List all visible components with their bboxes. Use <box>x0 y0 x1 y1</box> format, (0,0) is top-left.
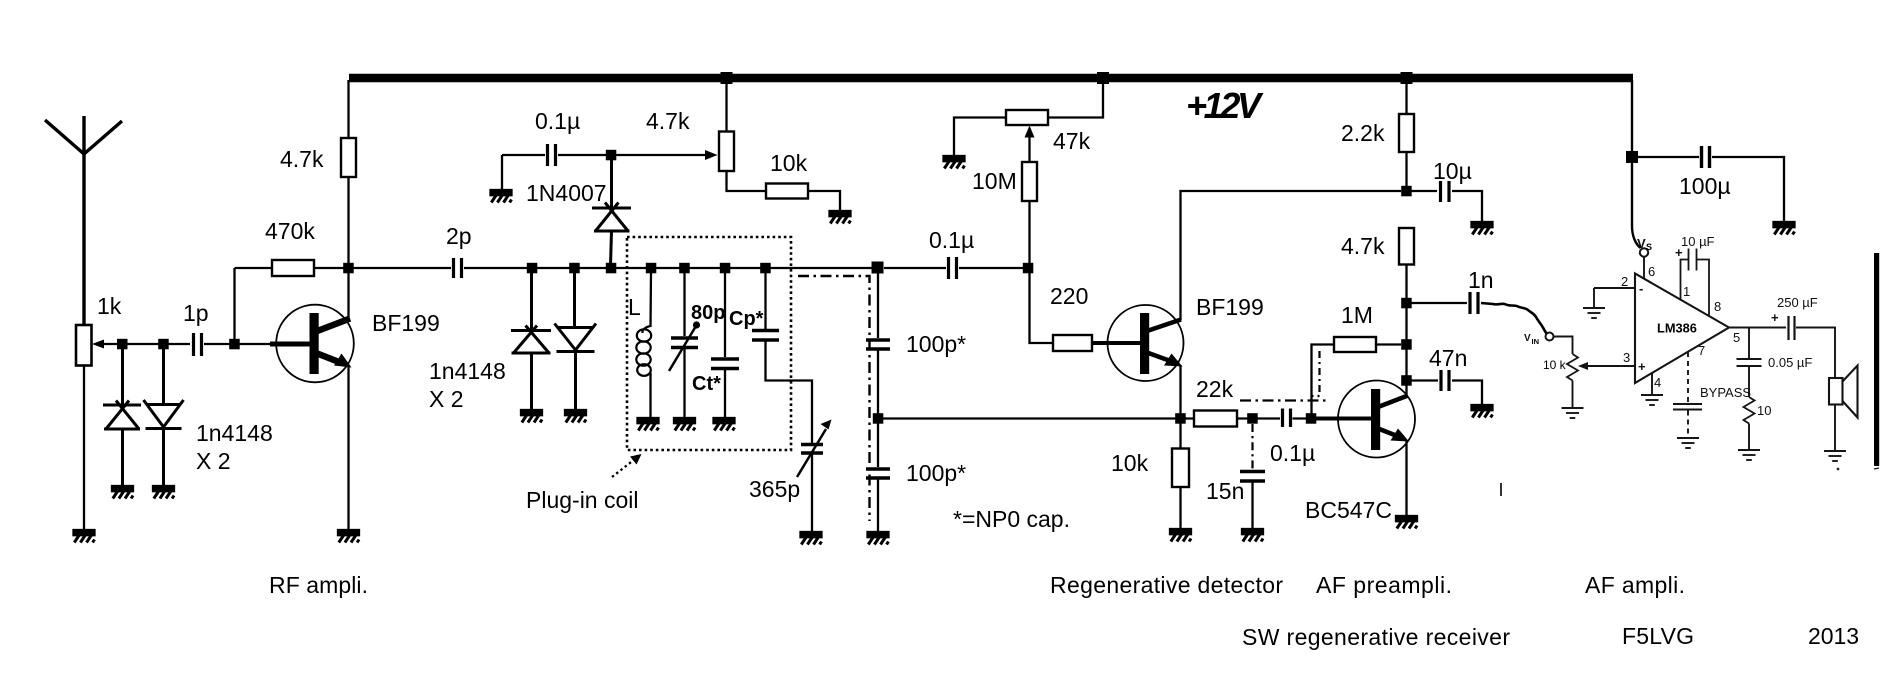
node junction F (diode to tank line) <box>606 263 617 274</box>
ground (Q3) <box>1396 516 1417 529</box>
variable capacitor 80p <box>683 272 685 336</box>
wire: pot top to bus <box>725 82 727 132</box>
pin 4 ground lead <box>1651 373 1653 394</box>
stray tick mark <box>1500 483 1502 496</box>
diode D4 1n4148 (cathode down) <box>555 272 597 410</box>
svg-text:BF199: BF199 <box>1196 294 1264 320</box>
capacitor 10uF pins 1-8 <box>1681 249 1710 316</box>
dash-dot link to 15n <box>1251 424 1253 470</box>
resistor 10M <box>1022 162 1037 201</box>
ground (Q1 emitter) <box>338 530 359 543</box>
svg-text:V: V <box>1524 333 1531 344</box>
node junction A <box>117 339 128 350</box>
ground (L) <box>638 418 659 431</box>
ground (antenna pot) <box>74 530 95 543</box>
label 220 <box>1050 283 1088 309</box>
label 0.1u <box>535 108 580 134</box>
wire: Q1 emitter to ground <box>347 365 349 531</box>
svg-text:AF ampli.: AF ampli. <box>1585 572 1685 598</box>
Q3 base thick lead <box>1311 417 1372 421</box>
label 4.7k <box>280 146 324 172</box>
label 1n4148 X 2 (tank clippers) <box>429 358 506 412</box>
node junction H (D4) <box>569 263 580 274</box>
label 47n <box>1429 345 1467 371</box>
capacitor 10u <box>1411 190 1437 192</box>
wire: 1M left lead <box>1312 345 1335 415</box>
node junction E <box>606 150 617 161</box>
wire: 470k right lead <box>314 267 345 269</box>
ground (10k emitter) <box>1170 529 1191 542</box>
svg-text:*=NP0 cap.: *=NP0 cap. <box>953 506 1070 532</box>
svg-text:+: + <box>1675 245 1683 260</box>
node junction K (Ct) <box>720 263 731 274</box>
svg-text:BF199: BF199 <box>372 310 440 336</box>
potentiometer 47k body <box>1006 110 1048 125</box>
capacitor 2p <box>454 258 462 278</box>
svg-text:10k: 10k <box>770 150 808 176</box>
label Ct* <box>692 373 721 395</box>
capacitor 0.1u (AGC) left lead + ground <box>502 154 545 156</box>
node junction P (emitter/22k) <box>1175 413 1186 424</box>
label *=NP0 cap. <box>953 506 1070 532</box>
node junction N (cap divider tap) <box>873 413 884 424</box>
node junction O (detector base node) <box>1023 263 1034 274</box>
wire: 10k emitter leads <box>1179 423 1181 449</box>
pin 5 output wire <box>1729 327 1786 329</box>
pin 7 bypass dashed lead <box>1687 352 1689 403</box>
label 15n <box>1206 478 1244 504</box>
ground (15n) <box>1242 529 1263 542</box>
node junction U (1M tap) <box>1401 339 1412 350</box>
wire: tank to 0.1u det <box>884 267 946 269</box>
svg-text:2013: 2013 <box>1808 623 1859 649</box>
svg-text:F5LVG: F5LVG <box>1622 623 1694 649</box>
resistor 470k <box>272 260 314 276</box>
svg-text:0.1µ: 0.1µ <box>1270 440 1315 466</box>
pin 3 non-inverting input <box>1586 365 1635 367</box>
wire: 0.1u to junction O <box>959 267 1028 269</box>
svg-text:Cp*: Cp* <box>729 308 764 330</box>
stray marks <box>1837 468 1840 471</box>
potentiometer 1k body <box>76 325 92 366</box>
svg-text:1N4007: 1N4007 <box>526 180 607 206</box>
svg-text:4: 4 <box>1654 375 1661 390</box>
label Cp* <box>729 308 764 330</box>
svg-text:RF ampli.: RF ampli. <box>269 572 368 598</box>
node: bus junction at 4.7k pot <box>721 72 733 84</box>
svg-text:4.7k: 4.7k <box>1341 233 1385 259</box>
svg-text:1n4148: 1n4148 <box>429 358 506 384</box>
label 80p <box>691 302 725 324</box>
resistor 10 zobel <box>1744 397 1755 424</box>
svg-text:+12V: +12V <box>1186 85 1264 126</box>
svg-text:80p: 80p <box>691 302 725 324</box>
label 4.7k (pot) <box>646 108 690 134</box>
capacitor 0.1u (preamp coupling) <box>1283 409 1291 428</box>
capacitor 100u <box>1638 156 1699 158</box>
ground (D1) <box>112 486 133 499</box>
inductor L <box>649 272 652 327</box>
capacitor 250uF <box>1789 316 1795 340</box>
svg-text:0.1µ: 0.1µ <box>535 108 580 134</box>
label Plug-in coil <box>526 487 639 513</box>
wire: output to speaker <box>1796 328 1835 379</box>
potentiometer 10k volume <box>1554 337 1573 355</box>
svg-text:IN: IN <box>1532 337 1540 346</box>
label 2p <box>446 223 472 249</box>
capacitor 0.05uF <box>1748 328 1750 359</box>
+12V label <box>1186 85 1264 126</box>
wire: junction O down to 220 <box>1030 268 1054 343</box>
capacitor BYPASS <box>1673 404 1702 410</box>
Vs terminal <box>1640 248 1648 256</box>
ground (10k volume) <box>1562 408 1584 418</box>
svg-text:S: S <box>1646 242 1652 252</box>
resistor 4.7k (preamp collector) <box>1399 228 1414 265</box>
arrow to plug-in coil box <box>612 459 635 477</box>
resistor 10k (pot leak) <box>766 184 808 199</box>
wire: 1p to base node <box>204 343 280 345</box>
svg-text:10M: 10M <box>972 168 1017 194</box>
svg-text:1n4148: 1n4148 <box>196 420 273 446</box>
365p arm arrow <box>797 429 826 477</box>
wire: junction B to 1p cap <box>165 343 190 345</box>
wire: 0.1u to junction E <box>558 154 608 156</box>
80p trimmer arm with dot <box>669 326 696 371</box>
ground (100u) <box>1774 222 1795 235</box>
svg-text:10k: 10k <box>1111 450 1149 476</box>
dash-dot 1M bias link vertical <box>1312 351 1320 396</box>
svg-text:0.1µ: 0.1µ <box>929 227 974 253</box>
wire: 10k to ground <box>808 191 840 212</box>
diode 1N4007 <box>592 158 631 265</box>
capacitor 47n <box>1411 379 1438 381</box>
svg-text:+: + <box>1771 310 1779 325</box>
svg-text:1M: 1M <box>1341 302 1373 328</box>
node junction S (10u tap) <box>1401 186 1412 197</box>
ground (speaker) <box>1824 451 1846 461</box>
pin 2 inverting input <box>1594 287 1635 289</box>
wire: Cp to 365p <box>766 341 813 443</box>
capacitor 100p* upper <box>877 273 879 338</box>
capacitor 1n <box>1411 302 1467 304</box>
wire: Q2 emitter down <box>1179 365 1181 419</box>
node junction V (47n tap) <box>1401 375 1412 386</box>
svg-text:10: 10 <box>1757 403 1771 418</box>
svg-text:365p: 365p <box>749 476 800 502</box>
wire: Q3 collector chain <box>1405 264 1407 395</box>
svg-text:4.7k: 4.7k <box>646 108 690 134</box>
svg-text:-: - <box>1639 281 1643 296</box>
ganged tuning dash-dot link <box>798 276 870 521</box>
label 470k <box>265 218 315 244</box>
label 10u <box>1433 158 1472 184</box>
svg-text:L: L <box>628 294 641 320</box>
ground (D4) <box>565 410 586 423</box>
svg-text:2p: 2p <box>446 223 472 249</box>
node junction W (100u tap) <box>1626 151 1638 163</box>
svg-text:6: 6 <box>1648 264 1655 279</box>
capacitor Cp* <box>764 272 766 329</box>
label 1M <box>1341 302 1373 328</box>
node junction C <box>229 339 240 350</box>
resistor 22k <box>1194 411 1237 427</box>
node junction G (D3) <box>527 263 538 274</box>
label 10k (emitter) <box>1111 450 1149 476</box>
node junction T (1n tap) <box>1401 298 1412 309</box>
wire: speaker to ground <box>1834 405 1836 451</box>
svg-text:8: 8 <box>1714 299 1721 314</box>
label 47k <box>1053 128 1091 154</box>
label 0.1u det <box>929 227 974 253</box>
svg-text:7: 7 <box>1698 343 1705 358</box>
label 1n <box>1468 267 1494 293</box>
capacitor 0.1u (AGC) <box>548 144 556 166</box>
svg-text:1k: 1k <box>97 293 122 319</box>
label 1k <box>97 293 122 319</box>
label 1p <box>183 300 209 326</box>
svg-text:10 µF: 10 µF <box>1681 234 1715 249</box>
op-amp U1 LM386 triangle <box>1635 274 1729 384</box>
label 100p* lower <box>906 460 966 486</box>
diode D3 1n4148 (cathode up) <box>511 272 551 410</box>
label 10k <box>770 150 808 176</box>
ground (365p) <box>801 532 822 545</box>
label 0.1u (preamp) <box>1270 440 1315 466</box>
resistor 220 <box>1053 335 1092 351</box>
ground (47k) <box>944 156 965 169</box>
ground (pin4) <box>1641 395 1663 405</box>
node junction B <box>158 339 169 350</box>
label 22k <box>1196 376 1234 402</box>
wire: 4.7k to collector node <box>347 177 349 320</box>
resistor 10k (emitter) <box>1172 449 1189 488</box>
ground (D3) <box>521 410 542 423</box>
diode D1 1n4148 (cathode up) <box>103 349 141 486</box>
potentiometer 4.7k body <box>719 132 734 172</box>
node: bus junction at 47k pot <box>1097 72 1109 84</box>
node: bus to 4.7k RF collector resistor <box>347 80 349 138</box>
wire: pot bottom to 10k <box>727 171 767 191</box>
svg-text:X 2: X 2 <box>429 386 464 412</box>
wire: bus down to Vs <box>1632 80 1641 248</box>
svg-text:100p*: 100p* <box>906 331 966 357</box>
capacitor 100p* lower <box>877 423 879 467</box>
svg-text:47k: 47k <box>1053 128 1091 154</box>
label BC547C <box>1305 497 1392 523</box>
diode D2 1n4148 (cathode down) <box>144 349 184 486</box>
wire: base node up to 470k <box>233 268 235 340</box>
pin 6 lead <box>1643 257 1645 280</box>
ground (D2) <box>153 486 174 499</box>
ground (bypass) <box>1677 438 1699 448</box>
wire: Q3 emitter to ground <box>1405 441 1407 517</box>
svg-text:250 µF: 250 µF <box>1777 295 1818 310</box>
wire: 47k right to bus <box>1048 82 1103 118</box>
antenna <box>45 116 122 325</box>
wire: 220 to Q2 base <box>1092 341 1141 345</box>
ground (zobel) <box>1738 450 1760 460</box>
wire: 22k to junction Q <box>1237 417 1280 419</box>
wire: 2.2k leads <box>1405 82 1407 114</box>
resistor 2.2k <box>1399 114 1414 152</box>
label 1n4148 X 2 <box>196 420 273 474</box>
47k wiper arrow up <box>1028 135 1030 162</box>
dash-dot 1M bias link horizontal <box>1240 399 1328 401</box>
svg-text:Regenerative detector: Regenerative detector <box>1050 572 1283 598</box>
svg-text:X 2: X 2 <box>196 448 231 474</box>
svg-text:22k: 22k <box>1196 376 1234 402</box>
plug-in coil dotted box <box>627 237 791 450</box>
node: bus junction at 2.2k <box>1401 72 1413 84</box>
svg-text:1: 1 <box>1683 284 1690 299</box>
label L <box>628 294 641 320</box>
wire: feedback line to emitter <box>878 417 1180 419</box>
label 100p* upper <box>906 331 966 357</box>
right margin bar <box>1874 253 1879 466</box>
node junction L2 (Cp) <box>760 263 771 274</box>
wire: 1M right lead <box>1376 343 1401 345</box>
svg-text:220: 220 <box>1050 283 1088 309</box>
svg-text:15n: 15n <box>1206 478 1244 504</box>
node junction J (80p) <box>679 263 690 274</box>
label 100u <box>1679 173 1731 199</box>
svg-text:470k: 470k <box>265 218 315 244</box>
transistor Q3 BC547C <box>1338 381 1415 458</box>
ground (10u) <box>1472 222 1493 235</box>
capacitor 1p <box>194 333 202 356</box>
svg-text:10µ: 10µ <box>1433 158 1472 184</box>
resistor 1M <box>1334 337 1376 352</box>
svg-text:LM386: LM386 <box>1657 321 1697 336</box>
svg-text:Plug-in coil: Plug-in coil <box>526 487 639 513</box>
label BF199 <box>372 310 440 336</box>
capacitor 0.1u (detector gate) <box>949 257 957 279</box>
label 10M <box>972 168 1017 194</box>
svg-text:4.7k: 4.7k <box>280 146 324 172</box>
node junction M (tap) <box>872 262 884 274</box>
ground (0.1u AGC) <box>491 190 512 203</box>
svg-text:3: 3 <box>1623 350 1630 365</box>
svg-text:SW regenerative receiver: SW regenerative receiver <box>1242 624 1510 650</box>
transistor Q2 BF199 (detector) <box>1108 305 1184 381</box>
node junction R (Q3 base) <box>1306 413 1317 424</box>
wire: 10M to junction O <box>1028 201 1030 268</box>
wire: node D to 2p cap <box>349 267 452 269</box>
wire: 2p to tank line <box>464 267 880 269</box>
svg-text:1n: 1n <box>1468 267 1494 293</box>
label 365p <box>749 476 800 502</box>
label 4.7k (preamp) <box>1341 233 1385 259</box>
transistor Q1 BF199 <box>270 305 354 383</box>
wire: Q2 collector up and to 2.2k node <box>1181 191 1402 320</box>
svg-text:BYPASS: BYPASS <box>1700 385 1751 400</box>
label 1N4007 <box>526 180 607 206</box>
svg-text:47n: 47n <box>1429 345 1467 371</box>
ground (10k) <box>830 211 851 224</box>
variable capacitor 365p <box>801 445 823 454</box>
capacitor 15n <box>1240 472 1265 482</box>
resistor 4.7k (RF collector) <box>341 138 356 177</box>
svg-text:100p*: 100p* <box>906 460 966 486</box>
squiggle wire to Vin <box>1481 303 1547 334</box>
svg-text:Ct*: Ct* <box>692 373 721 395</box>
svg-text:2.2k: 2.2k <box>1341 120 1385 146</box>
wire: 0.1u to Q3 base <box>1293 417 1341 419</box>
+12V power bus wire <box>349 74 1633 83</box>
wire: 470k left lead <box>235 267 273 269</box>
svg-text:AF preampli.: AF preampli. <box>1316 572 1452 598</box>
ground (47n) <box>1472 405 1493 418</box>
label BF199 (detector) <box>1196 294 1264 320</box>
svg-text:2: 2 <box>1621 274 1628 289</box>
svg-text:1p: 1p <box>183 300 209 326</box>
svg-text:10 k: 10 k <box>1543 358 1567 372</box>
svg-text:100µ: 100µ <box>1679 173 1731 199</box>
node junction D (470k/4.7k) <box>343 263 354 274</box>
wire: junction P to 22k <box>1185 417 1194 419</box>
ground (100p chain) <box>868 532 889 545</box>
wire: pot bottom to ground <box>83 366 85 532</box>
svg-text:5: 5 <box>1733 330 1740 345</box>
1k wiper arrow <box>103 343 165 345</box>
ground (80p) <box>674 418 695 431</box>
node junction Q (15n tap) <box>1247 413 1258 424</box>
speaker LS1 <box>1829 366 1858 418</box>
label 2.2k <box>1341 120 1385 146</box>
node junction I (coil L) <box>646 263 657 274</box>
svg-text:BC547C: BC547C <box>1305 497 1392 523</box>
svg-text:V: V <box>1637 236 1646 251</box>
svg-text:0.05 µF: 0.05 µF <box>1768 355 1812 370</box>
capacitor Ct* <box>724 272 726 357</box>
svg-text:+: + <box>1638 359 1646 374</box>
4.7k pot wiper arrow wire <box>611 154 706 156</box>
ground (Ct) <box>714 418 735 431</box>
Vin terminal <box>1546 333 1554 341</box>
wire: 47k left to ground <box>954 118 1006 158</box>
ground (pin2) <box>1583 308 1605 318</box>
